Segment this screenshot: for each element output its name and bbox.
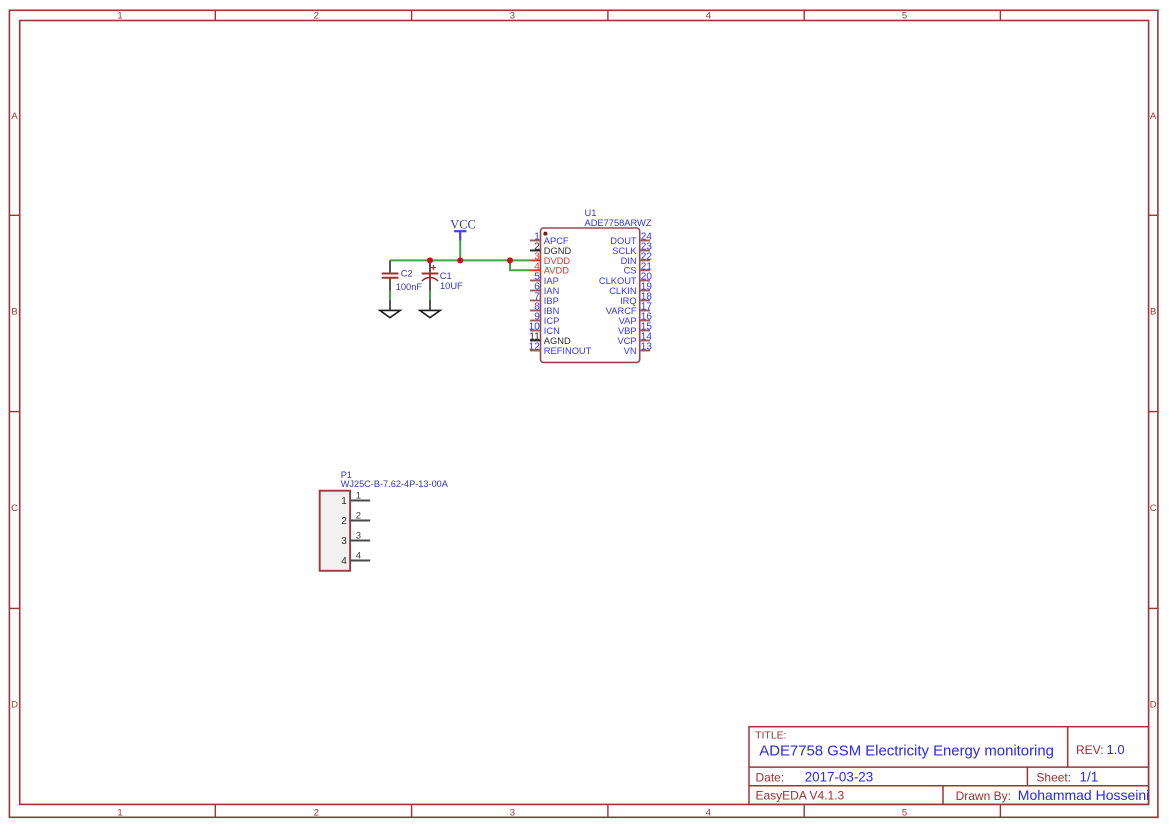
svg-text:VCC: VCC <box>450 218 475 232</box>
svg-text:2017-03-23: 2017-03-23 <box>805 769 874 784</box>
svg-text:2: 2 <box>341 516 347 527</box>
svg-text:REFINOUT: REFINOUT <box>544 346 592 356</box>
svg-text:1/1: 1/1 <box>1080 769 1099 784</box>
svg-text:1: 1 <box>356 491 361 502</box>
svg-text:4: 4 <box>341 556 347 567</box>
svg-text:VARCF: VARCF <box>606 306 637 316</box>
svg-text:EasyEDA V4.1.3: EasyEDA V4.1.3 <box>756 789 845 803</box>
U1 left pin stubs <box>530 241 541 351</box>
junction dot at C1 <box>427 257 433 263</box>
svg-text:Drawn By:: Drawn By: <box>956 789 1011 803</box>
svg-text:ICN: ICN <box>544 326 560 336</box>
svg-text:C: C <box>1150 503 1157 514</box>
svg-text:2: 2 <box>314 807 319 818</box>
svg-text:WJ25C-B-7.62-4P-13-00A: WJ25C-B-7.62-4P-13-00A <box>341 479 449 489</box>
svg-text:1: 1 <box>117 807 122 818</box>
svg-text:DOUT: DOUT <box>610 236 637 246</box>
svg-text:APCF: APCF <box>544 236 569 246</box>
svg-text:3: 3 <box>510 807 515 818</box>
svg-text:VCP: VCP <box>617 336 636 346</box>
svg-text:5: 5 <box>902 11 907 22</box>
svg-text:B: B <box>1150 307 1156 318</box>
svg-text:VBP: VBP <box>618 326 637 336</box>
svg-text:ICP: ICP <box>544 316 560 326</box>
svg-text:IAP: IAP <box>544 276 559 286</box>
U1 pin-1 dot <box>543 232 547 236</box>
svg-text:Mohammad Hosseini: Mohammad Hosseini <box>1018 787 1150 803</box>
svg-text:A: A <box>11 111 18 122</box>
frame zone ticks top <box>215 10 1000 20</box>
svg-text:C1: C1 <box>440 271 452 281</box>
U1 left pin numbers <box>529 232 541 353</box>
frame row letters right <box>1150 111 1157 710</box>
svg-text:IRQ: IRQ <box>620 296 637 306</box>
frame zone ticks left <box>9 215 19 608</box>
wire C2 bottom <box>389 290 391 301</box>
svg-text:Sheet:: Sheet: <box>1036 770 1071 784</box>
svg-text:DGND: DGND <box>544 246 572 256</box>
svg-text:CLKIN: CLKIN <box>609 286 636 296</box>
wire VCC net horizontal <box>390 259 530 261</box>
U1 right pin numbers <box>641 232 653 353</box>
svg-text:B: B <box>11 307 17 318</box>
svg-text:2: 2 <box>314 11 319 22</box>
U1 left pin names <box>544 236 592 356</box>
P1 outer pin numbers <box>356 491 361 562</box>
svg-text:CS: CS <box>624 266 637 276</box>
svg-text:13: 13 <box>641 342 653 353</box>
svg-text:2: 2 <box>356 511 361 522</box>
power flag VCC <box>450 218 475 241</box>
svg-text:A: A <box>1150 111 1157 122</box>
svg-text:3: 3 <box>356 531 361 542</box>
ground for C2 <box>380 310 400 317</box>
svg-text:C: C <box>11 503 18 514</box>
svg-text:1: 1 <box>117 11 122 22</box>
U1 right pin stubs <box>640 241 650 351</box>
svg-text:ADE7758ARWZ: ADE7758ARWZ <box>585 218 652 228</box>
junction dot at VCC <box>457 257 463 263</box>
svg-text:12: 12 <box>529 342 541 353</box>
svg-text:10UF: 10UF <box>440 281 463 291</box>
frame column numbers bottom <box>117 807 907 818</box>
svg-text:3: 3 <box>510 11 515 22</box>
svg-text:D: D <box>1150 699 1157 710</box>
junction dot at pin4 branch <box>507 257 513 263</box>
capacitor C1 (polarized) <box>422 261 463 310</box>
svg-text:IBP: IBP <box>544 296 559 306</box>
ground for C1 <box>420 310 440 317</box>
frame row letters left <box>11 111 18 710</box>
svg-text:ADE7758 GSM Electricity Energy: ADE7758 GSM Electricity Energy monitorin… <box>759 744 1054 760</box>
svg-text:D: D <box>11 699 18 710</box>
svg-text:IAN: IAN <box>544 286 560 296</box>
wire VCC vertical <box>459 241 461 261</box>
svg-text:SCLK: SCLK <box>612 246 637 256</box>
svg-text:AVDD: AVDD <box>544 266 569 276</box>
svg-text:TITLE:: TITLE: <box>755 730 787 742</box>
svg-text:5: 5 <box>902 807 907 818</box>
wire C1 bottom <box>429 290 431 301</box>
svg-text:4: 4 <box>706 11 711 22</box>
P1 inner pin names <box>341 496 347 567</box>
svg-text:1.0: 1.0 <box>1107 742 1125 757</box>
svg-text:VAP: VAP <box>619 316 637 326</box>
svg-text:Date:: Date: <box>756 770 785 784</box>
svg-text:VN: VN <box>624 346 637 356</box>
svg-text:AGND: AGND <box>544 336 571 346</box>
svg-text:1: 1 <box>341 496 347 507</box>
svg-text:REV:: REV: <box>1076 743 1104 757</box>
P1 pin stubs <box>350 501 370 561</box>
svg-text:U1: U1 <box>585 208 597 218</box>
svg-text:IBN: IBN <box>544 306 560 316</box>
svg-text:3: 3 <box>341 536 347 547</box>
svg-text:C2: C2 <box>401 269 413 279</box>
frame zone ticks right <box>1149 215 1158 608</box>
frame zone ticks bottom <box>215 804 1000 817</box>
svg-text:4: 4 <box>356 551 361 562</box>
svg-text:DIN: DIN <box>621 256 637 266</box>
capacitor C2 <box>382 260 423 310</box>
svg-text:DVDD: DVDD <box>544 256 571 266</box>
frame column numbers top <box>117 11 907 22</box>
wire branch to pin 4 <box>510 260 530 270</box>
connector P1 body <box>320 491 350 571</box>
U1 right pin names <box>599 236 638 356</box>
IC U1 body <box>541 228 640 362</box>
svg-text:100nF: 100nF <box>396 282 423 292</box>
svg-text:4: 4 <box>706 807 711 818</box>
svg-text:CLKOUT: CLKOUT <box>599 276 637 286</box>
